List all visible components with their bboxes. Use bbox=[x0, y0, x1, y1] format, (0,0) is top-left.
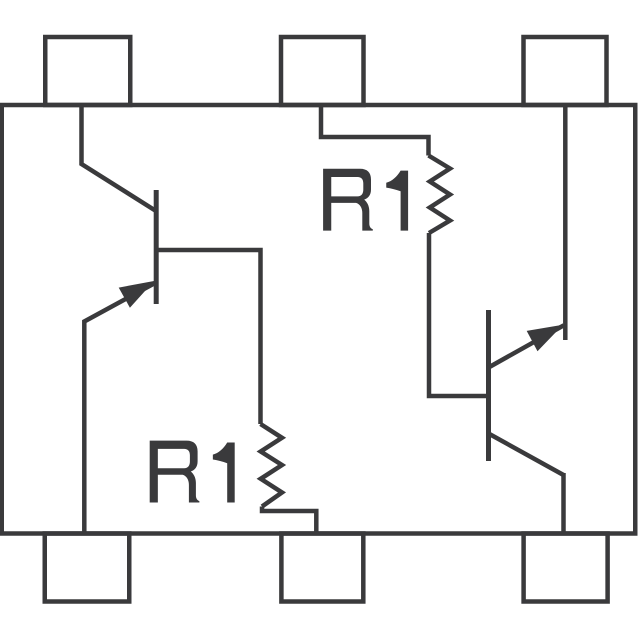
Q2 emitter arrowhead (NPN, points away from base) bbox=[527, 325, 563, 352]
pin 4 pad (top-right) bbox=[524, 37, 607, 105]
wire: Q2 emitter to top-right pin bbox=[563, 103, 568, 340]
wire: R1 (right) to Q2 base bbox=[429, 233, 488, 396]
pin 2 pad (bottom-center) bbox=[281, 534, 363, 602]
wire: Q2 collector to bottom-right pin bbox=[561, 473, 566, 535]
resistor R1 (left) zigzag bbox=[261, 424, 283, 507]
pin 3 pad (bottom-right) bbox=[524, 534, 608, 602]
transistor Q2 base bar bbox=[486, 310, 491, 461]
wire: top-center pin to resistor R1 (right) bbox=[321, 103, 429, 156]
label R1 (left resistor) bbox=[150, 441, 235, 503]
wire: Q1 emitter to bottom-left pin bbox=[84, 283, 155, 535]
Q1 emitter arrowhead (PNP, points into base bar) bbox=[119, 281, 154, 308]
wire: Q1 base to resistor R1 (left) bbox=[156, 250, 261, 424]
resistor R1 (right) zigzag bbox=[429, 156, 451, 234]
package body outline bbox=[2, 105, 636, 534]
wire: R1 (left) to pin 2 bbox=[262, 507, 316, 536]
pin 6 pad (top-left) bbox=[45, 37, 130, 105]
wire: Q1 collector to top-left pin bbox=[82, 103, 157, 211]
transistor Q1 base bar bbox=[154, 190, 159, 304]
Q2 emitter diagonal bbox=[489, 325, 564, 367]
pin 5 pad (top-center) bbox=[281, 37, 364, 105]
label R1 (right resistor) bbox=[323, 169, 408, 231]
pin 1 pad (bottom-left) bbox=[45, 534, 130, 602]
Q2 collector diagonal bbox=[489, 434, 564, 476]
